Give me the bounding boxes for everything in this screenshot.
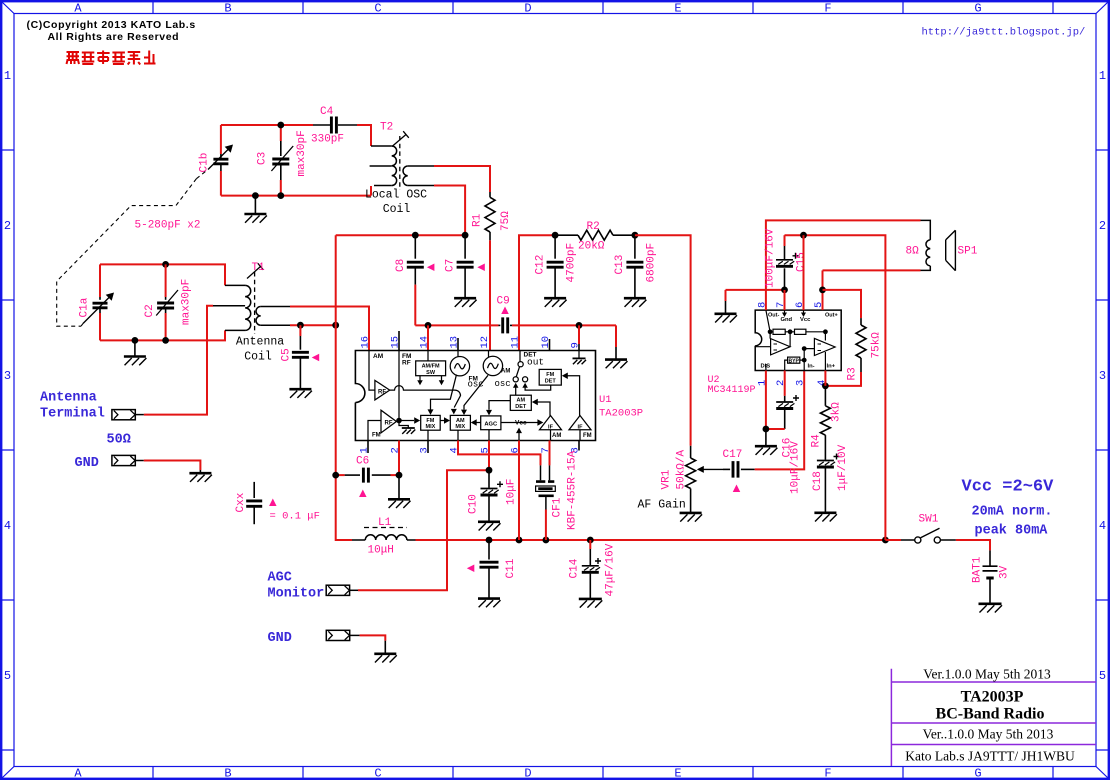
node tank1 top junction xyxy=(162,261,169,268)
svg-text:Antenna: Antenna xyxy=(40,391,97,406)
svg-text:C9: C9 xyxy=(497,296,510,308)
svg-text:8Ω: 8Ω xyxy=(906,246,920,258)
capacitor C4 xyxy=(313,124,330,126)
svg-text:A: A xyxy=(74,767,82,780)
svg-text:C6: C6 xyxy=(356,456,369,468)
wire pin7 stub xyxy=(784,290,786,310)
U1 internal FM DET to switch xyxy=(525,385,551,390)
svg-text:C1a: C1a xyxy=(79,297,91,317)
connector AGC monitor xyxy=(326,585,349,595)
wire T1 secondary top to pin16 xyxy=(261,306,290,308)
capacitor C16 10uF xyxy=(784,371,786,396)
svg-text:3kΩ: 3kΩ xyxy=(831,402,843,422)
svg-text:C11: C11 xyxy=(505,558,517,578)
svg-text:AGC: AGC xyxy=(268,571,292,586)
svg-text:AM: AM xyxy=(456,418,465,424)
wire pin14 drop xyxy=(427,325,429,350)
svg-text:SP1: SP1 xyxy=(958,246,978,258)
svg-text:out: out xyxy=(527,357,544,368)
svg-text:RF: RF xyxy=(378,390,386,396)
switch SW1 xyxy=(885,539,901,541)
svg-text:FM: FM xyxy=(426,418,434,424)
wire T1 tap to antenna terminal xyxy=(144,306,213,415)
svg-text:6800pF: 6800pF xyxy=(646,243,658,283)
svg-text:Cxx: Cxx xyxy=(235,492,247,512)
svg-text:AF Gain: AF Gain xyxy=(638,499,686,512)
node tank2 bottom junctions xyxy=(252,192,259,199)
transformer T2 local osc coil xyxy=(371,145,392,147)
U2 internal top rail and feedback resistors xyxy=(766,310,826,332)
variable capacitor C2 xyxy=(165,264,167,297)
svg-text:4700pF: 4700pF xyxy=(566,243,578,283)
svg-text:A: A xyxy=(74,2,82,16)
svg-text:RF: RF xyxy=(385,421,393,427)
svg-text:R2: R2 xyxy=(587,221,600,233)
svg-text:osc: osc xyxy=(495,379,511,389)
U1 internal AM IF to AM DET line xyxy=(537,402,550,416)
U1 internal AGC box xyxy=(481,416,501,430)
svg-text:IF: IF xyxy=(578,425,584,431)
wire pin9 drop xyxy=(578,325,580,344)
wire pin11 to R2 xyxy=(519,235,555,350)
ceramic filter CF1 xyxy=(540,465,542,480)
title block lines xyxy=(891,669,1096,766)
wire pin2 to C6 node xyxy=(398,441,400,476)
U1 internal AGC to AM IF line xyxy=(501,422,538,424)
svg-text:F: F xyxy=(824,2,831,16)
svg-text:GND: GND xyxy=(75,456,99,471)
svg-text:4: 4 xyxy=(4,519,11,533)
svg-text:C18: C18 xyxy=(812,471,824,491)
wire R1 to pin12 xyxy=(489,240,491,350)
wire GND bottom to ground xyxy=(360,635,386,640)
wire T1 secondary bottom xyxy=(261,324,290,326)
U1 internal pin14 lead xyxy=(427,351,429,361)
svg-text:20kΩ: 20kΩ xyxy=(578,241,605,253)
capacitor C13 6800pF xyxy=(634,235,636,259)
U1 internal AM MIX box xyxy=(450,415,470,430)
svg-text:C14: C14 xyxy=(569,558,581,578)
svg-text:1: 1 xyxy=(1099,69,1106,83)
resistor R2 20k xyxy=(555,234,578,236)
wire T2 secondary top to R1 xyxy=(408,165,434,167)
svg-text:D: D xyxy=(524,2,531,16)
node tank2 top junction xyxy=(277,122,284,129)
ground below C6 node xyxy=(398,475,400,499)
svg-text:VR1: VR1 xyxy=(661,469,673,489)
wire R2 to VR1 xyxy=(635,235,691,446)
wire R3 to pin4 node xyxy=(825,372,861,386)
wire C8 to C9 line xyxy=(414,285,416,326)
capacitor C12 4700pF xyxy=(554,235,556,259)
svg-text:All Rights are Reserved: All Rights are Reserved xyxy=(48,31,180,43)
wire tank1 top rail xyxy=(100,264,225,285)
svg-text:FM: FM xyxy=(546,372,554,378)
svg-text:Local OSC: Local OSC xyxy=(365,189,427,202)
svg-text:TA2003P: TA2003P xyxy=(599,408,643,420)
U2 internal BYP box and pin3 node xyxy=(788,357,800,363)
node R2 junctions xyxy=(552,232,559,239)
svg-text:C15: C15 xyxy=(796,252,808,272)
node pin7 junction xyxy=(781,287,788,294)
svg-text:C7: C7 xyxy=(444,259,456,272)
svg-text:C10: C10 xyxy=(468,494,480,514)
capacitor C7 xyxy=(464,235,466,259)
U1 internal AM RF output line with hop xyxy=(390,386,461,408)
node rail y235 junctions xyxy=(412,232,419,239)
svg-text:Ver.1.0.0 May 5th 2013: Ver.1.0.0 May 5th 2013 xyxy=(923,667,1051,682)
ground GND left xyxy=(199,470,201,473)
wire pin6 vcc drop xyxy=(803,235,805,310)
svg-text:R3: R3 xyxy=(847,367,859,380)
U1 internal FM osc circle xyxy=(450,357,469,376)
svg-text:max30pF: max30pF xyxy=(296,130,308,176)
svg-text:In-: In- xyxy=(808,364,815,370)
U1 internal AM DET to switch arrow xyxy=(515,387,517,395)
capacitor C18 1uF xyxy=(817,460,834,462)
node C5 junction xyxy=(297,322,304,329)
wire pin5 to C10 node and AGC line xyxy=(488,441,490,471)
svg-text:L1: L1 xyxy=(378,517,392,529)
capacitor C17 xyxy=(723,468,730,470)
svg-text:Coil: Coil xyxy=(244,351,272,364)
svg-text:47μF/16V: 47μF/16V xyxy=(605,543,617,596)
svg-text:C1b: C1b xyxy=(199,153,211,173)
svg-text:3V: 3V xyxy=(999,565,1011,579)
node pin4 junction xyxy=(822,383,829,390)
U1 internal node to FM MIX arrow xyxy=(399,420,414,422)
svg-text:AGC: AGC xyxy=(484,422,498,428)
svg-text:R1: R1 xyxy=(472,213,484,227)
svg-text:C2: C2 xyxy=(144,304,156,317)
svg-text:Terminal: Terminal xyxy=(40,407,105,422)
IC U1 TA2003P body xyxy=(355,351,595,441)
svg-text:Antenna: Antenna xyxy=(236,336,284,349)
wire tank2 bottom rail xyxy=(221,195,371,197)
svg-text:T2: T2 xyxy=(380,122,393,134)
svg-text:C13: C13 xyxy=(614,255,626,275)
U2 internal right op-amp xyxy=(814,332,835,371)
svg-text:AM: AM xyxy=(552,433,561,439)
svg-text:G: G xyxy=(974,767,981,780)
wire pin5 to speaker bottom xyxy=(822,270,824,310)
U1 internal AM osc slant to AM MIX xyxy=(464,375,488,409)
svg-text:50kΩ/A: 50kΩ/A xyxy=(676,449,688,489)
svg-text:AM/FM: AM/FM xyxy=(422,364,440,370)
resistor R1 75ohm xyxy=(489,192,491,197)
svg-text:16: 16 xyxy=(360,336,372,349)
svg-text:MIX: MIX xyxy=(455,424,465,430)
ground GND bottom xyxy=(384,641,386,654)
transformer T1 antenna coil xyxy=(225,284,245,286)
svg-text:RF: RF xyxy=(402,360,411,367)
node U1 internal mix junction xyxy=(396,418,402,424)
svg-text:R4: R4 xyxy=(811,434,823,448)
U1 pin1 stub xyxy=(367,441,369,454)
wire C17 to U2 pin3 xyxy=(755,371,805,470)
svg-text:CF1: CF1 xyxy=(552,497,564,517)
capacitor C11 xyxy=(488,540,490,560)
resistor R3 75k xyxy=(860,318,862,325)
svg-text:Coil: Coil xyxy=(383,203,411,216)
svg-text:AM: AM xyxy=(501,369,510,375)
wire pin5 branch to R3 xyxy=(823,290,862,318)
svg-text:KBF-455R-15A: KBF-455R-15A xyxy=(567,450,579,530)
svg-text:D: D xyxy=(524,767,531,780)
wire U2 ground line y290 xyxy=(726,289,785,291)
svg-text:330pF: 330pF xyxy=(311,134,344,146)
svg-text:BAT1: BAT1 xyxy=(972,556,984,583)
U1 internal pin12 into AM osc xyxy=(488,351,490,358)
capacitor C9 xyxy=(499,324,501,326)
svg-text:G: G xyxy=(974,2,981,16)
U1 internal pin9 small ground xyxy=(578,351,580,359)
U1 internal pin13 into FM osc xyxy=(457,351,459,357)
svg-text:Ver..1.0.0 May 5th 2013: Ver..1.0.0 May 5th 2013 xyxy=(923,727,1054,742)
U1 pin15 stub xyxy=(398,331,400,351)
svg-text:FM: FM xyxy=(372,433,381,439)
connector GND bottom xyxy=(326,630,349,640)
svg-text:Kato Lab.s JA9TTT/ JH1WBU: Kato Lab.s JA9TTT/ JH1WBU xyxy=(905,749,1075,764)
capacitor C14 47uF xyxy=(589,540,591,549)
U2 internal pin7 pin6 arrows xyxy=(785,310,804,312)
svg-text:C5: C5 xyxy=(281,348,293,361)
wire T2 secondary bottom to C7 xyxy=(408,185,434,187)
svg-text:In+: In+ xyxy=(827,364,836,370)
U1 internal FM MIX box xyxy=(421,415,441,430)
svg-text:20mA norm.: 20mA norm. xyxy=(972,505,1053,520)
IC U2 MC34119P body xyxy=(755,310,841,370)
svg-text:Vcc: Vcc xyxy=(800,317,811,323)
U2 internal pin1 lead xyxy=(765,364,767,371)
svg-text:AM: AM xyxy=(517,398,526,404)
svg-text:2: 2 xyxy=(4,219,11,233)
connector GND left xyxy=(112,455,135,465)
potentiometer VR1 50k AF Gain xyxy=(690,446,692,458)
svg-text:BC-Band Radio: BC-Band Radio xyxy=(936,706,1045,723)
node pin1 ground junction xyxy=(763,426,770,433)
svg-text:TA2003P: TA2003P xyxy=(961,689,1024,706)
speaker SP1 xyxy=(926,240,930,266)
svg-text:3: 3 xyxy=(1099,369,1106,383)
svg-text:75kΩ: 75kΩ xyxy=(871,332,883,359)
U1 pin3 stub xyxy=(427,441,429,454)
capacitor C15 100uF xyxy=(784,268,786,290)
svg-text:(C)Copyright 2013 KATO Lab.s: (C)Copyright 2013 KATO Lab.s xyxy=(27,19,196,31)
node C10 junction xyxy=(486,467,493,474)
svg-text:1μF/10V: 1μF/10V xyxy=(837,444,849,491)
U1 internal AM osc circle xyxy=(483,356,502,375)
svg-text:14: 14 xyxy=(419,336,431,349)
wire Vcc line y235 to SW1 drop xyxy=(785,235,886,540)
svg-text:max30pF: max30pF xyxy=(180,279,192,325)
node tank1 bottom junctions xyxy=(132,337,139,344)
svg-text:F: F xyxy=(824,767,831,780)
svg-text:50Ω: 50Ω xyxy=(107,433,131,448)
svg-text:10μF: 10μF xyxy=(506,479,518,505)
wire pin8 up to speaker top xyxy=(766,220,921,310)
U1 internal AM IF amp triangle xyxy=(540,416,562,430)
U1 internal AM/FM SW box xyxy=(416,361,446,376)
svg-text:U1: U1 xyxy=(599,394,612,406)
variable capacitor C1b xyxy=(220,125,222,154)
node pin6 top junction xyxy=(800,232,807,239)
svg-text:T1: T1 xyxy=(252,262,266,274)
svg-text:5: 5 xyxy=(4,669,11,683)
U1 internal AGC to AM MIX arrow xyxy=(476,422,481,424)
capacitor C8 xyxy=(414,235,416,259)
svg-text:10μF/16V: 10μF/16V xyxy=(790,441,802,494)
svg-text:E: E xyxy=(674,767,681,780)
ground at pin9 rail xyxy=(605,358,627,361)
svg-text:3: 3 xyxy=(4,369,11,383)
svg-text:100μF/16V: 100μF/16V xyxy=(765,228,777,288)
svg-text:AM: AM xyxy=(373,353,383,360)
node main rail junctions xyxy=(486,537,493,544)
wire pin7 to CF1 xyxy=(549,441,551,466)
U1 internal SW output arrows xyxy=(420,376,442,381)
svg-text:12: 12 xyxy=(479,336,491,349)
variable capacitor C1a xyxy=(99,264,101,297)
wire pin6 to rail xyxy=(518,441,520,541)
svg-text:IF: IF xyxy=(548,425,554,431)
svg-text:DET: DET xyxy=(515,404,527,410)
capacitor C10 10uF xyxy=(488,470,490,488)
U1 internal pin16 lead and AM RF amp xyxy=(369,351,390,400)
wire C9 line xyxy=(415,324,498,326)
svg-text:SW1: SW1 xyxy=(919,514,939,526)
svg-text:Vcc =2~6V: Vcc =2~6V xyxy=(962,478,1055,497)
ground tank2 xyxy=(254,196,256,214)
capacitor Cxx optional xyxy=(253,482,255,498)
wire left rail vertical xyxy=(335,235,337,475)
wire tank1 bottom rail xyxy=(100,330,225,340)
svg-text:MC34119P: MC34119P xyxy=(708,385,756,396)
U1 internal small ground at pin2 xyxy=(399,421,408,429)
U1 internal pin5 lead xyxy=(488,430,490,441)
svg-text:DET: DET xyxy=(545,379,557,385)
ground below pin1 xyxy=(765,429,767,446)
svg-text:C8: C8 xyxy=(395,259,407,272)
gang dashed link C1a C1b xyxy=(57,179,197,327)
connector antenna terminal xyxy=(112,410,135,420)
resistor R4 3k xyxy=(824,386,826,406)
node pin5 junction xyxy=(819,287,826,294)
ground U2 left xyxy=(715,312,737,315)
U1 internal AM DET box xyxy=(510,395,531,410)
svg-text:9: 9 xyxy=(570,342,582,348)
svg-text:5-280pF x2: 5-280pF x2 xyxy=(135,220,201,232)
wire pin4 stub xyxy=(824,371,826,386)
svg-text:FM: FM xyxy=(583,433,592,439)
svg-text:GND: GND xyxy=(268,631,292,646)
svg-text:3: 3 xyxy=(795,380,807,386)
wire rail y235 xyxy=(336,234,465,236)
svg-text:= 0.1 μF: = 0.1 μF xyxy=(270,511,320,523)
node C9 line junctions xyxy=(425,322,432,329)
svg-text:C: C xyxy=(374,767,381,780)
U1 internal FM osc slant to FM MIX xyxy=(431,375,457,410)
svg-text:C12: C12 xyxy=(534,255,546,275)
svg-text:C4: C4 xyxy=(320,106,334,118)
svg-text:C3: C3 xyxy=(256,152,268,165)
capacitor C5 xyxy=(299,325,301,336)
svg-text:4: 4 xyxy=(1099,519,1106,533)
red kanji notice 無断転載禁止 (drawn strokes) xyxy=(67,51,156,65)
U1 internal FM MIX to AM MIX arrow xyxy=(440,420,444,422)
svg-text:Gnd: Gnd xyxy=(781,317,793,323)
node C6 junctions xyxy=(332,472,339,479)
svg-text:http://ja9ttt.blogspot.jp/: http://ja9ttt.blogspot.jp/ xyxy=(922,27,1086,39)
U1 internal FM RF amp triangle xyxy=(368,410,396,440)
variable capacitor C3 xyxy=(280,125,282,141)
svg-text:C17: C17 xyxy=(723,449,743,461)
wire pin1 to ground node xyxy=(765,371,767,430)
svg-text:5: 5 xyxy=(1099,669,1106,683)
svg-text:1: 1 xyxy=(4,69,11,83)
svg-text:B: B xyxy=(224,2,231,16)
wire GND left to ground xyxy=(144,461,201,471)
node left rail junction xyxy=(332,322,339,329)
capacitor C6 xyxy=(345,474,360,476)
svg-text:SW: SW xyxy=(426,370,436,376)
U1 internal FM IF amp triangle xyxy=(569,416,591,430)
svg-text:11: 11 xyxy=(510,336,522,349)
wire tank2 top rail xyxy=(221,124,313,126)
svg-text:B: B xyxy=(224,767,231,780)
svg-text:10μH: 10μH xyxy=(368,545,394,557)
svg-text:E: E xyxy=(674,2,681,16)
svg-text:MIX: MIX xyxy=(426,424,436,430)
U1 pin13 stub xyxy=(457,338,459,351)
ground tank1 xyxy=(134,340,136,356)
svg-text:75Ω: 75Ω xyxy=(500,211,512,231)
inductor L1 10uH xyxy=(352,539,365,541)
wire SW1 to battery xyxy=(956,540,990,550)
U1 internal pin15 line to mix node xyxy=(398,351,400,421)
svg-text:Out+: Out+ xyxy=(825,313,838,319)
svg-text:Out-: Out- xyxy=(768,313,779,319)
svg-text:Vcc: Vcc xyxy=(515,420,527,427)
svg-text:Monitor: Monitor xyxy=(268,587,325,602)
U1 pin8 stub xyxy=(578,441,580,451)
U1 internal FM DET box xyxy=(539,369,561,385)
U1 internal AM DET to AGC line xyxy=(489,401,510,410)
wire main rail y540 xyxy=(416,539,886,541)
U1 pin10 stub xyxy=(549,339,551,351)
U1 internal FM IF to FM DET line xyxy=(568,376,580,416)
svg-text:peak 80mA: peak 80mA xyxy=(975,524,1049,539)
U2 internal left op-amp xyxy=(755,332,790,355)
battery BAT1 3V xyxy=(989,550,991,565)
svg-text:2: 2 xyxy=(1099,219,1106,233)
wire pin4 to CF1 xyxy=(458,441,541,466)
svg-text:C: C xyxy=(374,2,381,16)
